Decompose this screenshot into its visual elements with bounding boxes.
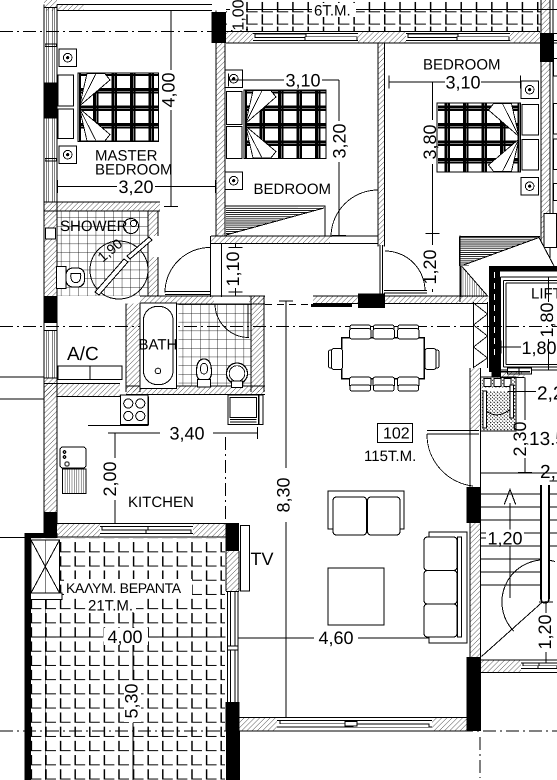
stairs center wall bar [541, 485, 549, 603]
text 5,30 rotated on white [122, 681, 142, 722]
dimension 1,20 bedroom3 door vertical [432, 234, 434, 293]
landing top wall band below lift [500, 372, 530, 378]
bath room floor tiles [179, 304, 252, 386]
veranda floor tiles [31, 538, 225, 780]
svg-text:2,30: 2,30 [510, 421, 530, 456]
headboard bedroom3 [522, 105, 539, 171]
dining chairs bottom row [350, 377, 420, 391]
svg-text:1,20: 1,20 [535, 614, 555, 649]
dimension 5,30 veranda vertical [132, 598, 134, 780]
dining table [342, 338, 425, 379]
svg-text:4,00: 4,00 [107, 627, 142, 647]
stairs treads left flight [481, 494, 541, 585]
wall pier black below lift [492, 360, 502, 378]
shower enclosure circle [90, 241, 148, 299]
wardrobe bedroom3 [459, 236, 461, 238]
window bedroom2 top [253, 34, 358, 41]
dimension 1,20 stairs tick [481, 537, 493, 539]
svg-text:8,30: 8,30 [274, 477, 294, 512]
svg-text:102: 102 [383, 426, 410, 443]
window living south [277, 721, 432, 728]
rotated dim texts [100, 72, 557, 512]
svg-text:LIFT: LIFT [531, 286, 557, 303]
dimension 1,20 winder vertical [539, 601, 553, 663]
svg-text:2,2: 2,2 [537, 384, 557, 405]
door bedroom3 leaf and arc [380, 245, 427, 295]
lift shaft box [501, 277, 557, 370]
dining chairs top row [350, 325, 420, 339]
column black balcony left [212, 12, 227, 43]
wall: corridor south / bath top band [140, 296, 488, 304]
centerline vertical stub bottom right [479, 737, 481, 778]
dining chair left [329, 349, 343, 370]
bed master [78, 73, 159, 142]
kitchen sink unit [60, 447, 86, 468]
bed bedroom3 [437, 103, 521, 172]
sofa three seat [424, 532, 467, 643]
wall: exterior left band outline [44, 5, 57, 538]
wall: corridor north band [211, 236, 378, 244]
wall: kitchen top band [44, 384, 120, 397]
dimension 3,10 bedroom2 [228, 74, 339, 87]
window master W1 [44, 8, 57, 84]
window kitchen/veranda [100, 527, 193, 534]
wall: lift black walls [489, 266, 557, 372]
wall pier black below SW to edge [226, 731, 240, 780]
socket master bottom [59, 146, 77, 164]
dimension 1,80 lift vertical [548, 277, 550, 370]
socket bedroom3 top [521, 81, 539, 99]
dining chair right [425, 349, 439, 370]
svg-text:21Τ.Μ.: 21Τ.Μ. [88, 598, 133, 615]
door bath arc [215, 304, 251, 338]
wardrobe bedroom2 [225, 206, 325, 236]
neighbour socket sliver top [554, 59, 557, 77]
wall: bath bottom band [126, 386, 265, 395]
wall: veranda top black link [25, 533, 58, 538]
text veranda label [64, 579, 192, 615]
slab edge line veranda top [0, 537, 25, 539]
dimension 4,00 veranda [26, 631, 226, 644]
socket bedroom3 bottom [521, 178, 539, 196]
kitchen hob [121, 395, 149, 425]
svg-text:5,30: 5,30 [122, 683, 142, 718]
dimension 3,80 bedroom3 vertical [426, 82, 440, 234]
svg-text:A/C: A/C [67, 344, 99, 365]
socket master top [59, 49, 77, 67]
toilet shower room [57, 267, 85, 289]
wall: shower top band [44, 202, 160, 211]
wall: bedroom2/bedroom3 party wall [378, 43, 385, 247]
centerline top axis [0, 31, 212, 33]
dimension 4,60 living [238, 637, 429, 639]
svg-text:3,20: 3,20 [118, 177, 153, 197]
svg-text:2,00: 2,00 [100, 461, 120, 496]
neighbour party wall line [552, 0, 554, 213]
dimension 3,20 master horizontal [57, 180, 216, 193]
wall: insulated zigzag band lift lobby [474, 302, 488, 368]
svg-text:1,80: 1,80 [537, 302, 557, 337]
svg-text:1,80: 1,80 [521, 338, 556, 358]
svg-text:1,20: 1,20 [420, 249, 440, 284]
wall pier black left 2 [44, 296, 57, 323]
shower head spiral [124, 219, 139, 234]
kitchen peninsula cabinet [228, 395, 263, 425]
centerline bottom axis [0, 730, 557, 732]
svg-text:2,: 2, [540, 462, 556, 483]
neighbour headboard sliver 2 [554, 139, 557, 170]
shower door diagonal panels [95, 237, 152, 295]
corridor east end line [459, 236, 461, 303]
sliding door bar dining [311, 304, 352, 307]
svg-text:1,20: 1,20 [487, 529, 522, 549]
wall pier black top right [540, 33, 554, 62]
window master W2 [44, 118, 57, 202]
stairs up arrow [504, 490, 515, 599]
stairs winder lines [482, 560, 555, 657]
wall pier black left 1 [44, 83, 57, 118]
svg-text:13.5: 13.5 [529, 429, 557, 450]
dimension 1,00 balcony vertical [234, 0, 248, 32]
socket bedroom2 bottom [225, 172, 243, 190]
window A/C left wall [44, 331, 57, 379]
shower room floor tiles [57, 211, 148, 296]
text 1,20 winder rotated on white [535, 613, 555, 652]
wall: bedrooms top band [226, 32, 557, 44]
window stairs south [521, 663, 557, 669]
bed bedroom2 [244, 90, 326, 159]
balcony floor tiles top [226, 0, 557, 32]
dimension 4,00 master vertical [164, 10, 178, 207]
text 4,00 veranda on white [104, 627, 148, 647]
wall: veranda left black [25, 533, 32, 780]
wall pier black TV top [226, 524, 240, 552]
vent window shower left wall [46, 228, 56, 239]
kitchen radiator [63, 469, 87, 494]
wall: bath right band [251, 296, 264, 392]
wall: exterior right band [541, 0, 550, 266]
column black corridor/dining [358, 294, 385, 309]
door lobby arc [165, 248, 210, 295]
neighbour headboard sliver 1 [554, 104, 557, 135]
wall pier black living SE [467, 657, 482, 731]
entry porch dotted [481, 377, 517, 431]
svg-text:1,10: 1,10 [223, 251, 243, 286]
dimension 2,2 landing top [508, 378, 536, 392]
edge dim texts right [529, 384, 557, 484]
wall: master top [44, 0, 212, 11]
svg-text:BEDROOM: BEDROOM [423, 57, 501, 74]
wall pier black living SW [226, 702, 240, 731]
text 102 box [378, 424, 413, 443]
svg-text:BATH: BATH [139, 337, 178, 354]
dimension 2,30 landing vertical [518, 392, 532, 474]
stairs treads right flight [550, 481, 557, 546]
socket bedroom2 top [225, 70, 243, 88]
wall pier black left 3 [44, 512, 57, 537]
dimension 1,10 corridor vertical [229, 244, 243, 296]
svg-text:ΚΑΛΥΜ. ΒΕΡΑΝΤΑ: ΚΑΛΥΜ. ΒΕΡΑΝΤΑ [66, 580, 182, 596]
headboard master [58, 75, 74, 139]
svg-text:4,00: 4,00 [159, 72, 179, 107]
sofa loveseat [328, 491, 404, 535]
dimension 3,20 bedroom2 vertical [332, 80, 346, 236]
duct box in right wall [544, 214, 557, 248]
bathtub [140, 303, 177, 389]
kitchen counter line [88, 397, 149, 426]
svg-text:3,10: 3,10 [445, 73, 480, 93]
svg-text:TV: TV [251, 549, 274, 569]
void hatch lower triangle [461, 266, 488, 297]
dimension 8,30 living vertical [279, 301, 293, 718]
slab edge line A/C balcony upper [0, 376, 44, 378]
wall hatch left shower section [44, 202, 57, 228]
wall hatch TV section [226, 551, 239, 591]
wall: living bottom band [239, 718, 467, 732]
window living/veranda west [226, 592, 239, 703]
centerline middle axis [0, 326, 557, 328]
svg-text:1,00: 1,00 [231, 0, 248, 31]
dimension 2,00 kitchen vertical [108, 433, 122, 524]
svg-text:BEDROOM: BEDROOM [95, 162, 173, 179]
door entry leaf and arc [427, 431, 479, 487]
coffee table [328, 568, 384, 625]
dashed opening line kitchen/corridor [265, 304, 313, 306]
basin bath [227, 363, 248, 388]
neighbour socket sliver bottom [554, 184, 557, 201]
text 6T.M. balcony [312, 3, 356, 20]
wall: lobby stub wall [211, 236, 222, 297]
wall: stairs south band [481, 660, 557, 673]
svg-text:3,40: 3,40 [169, 424, 204, 444]
svg-text:6Τ.Μ.: 6Τ.Μ. [314, 3, 351, 20]
door bedroom2 arc [331, 190, 378, 237]
wall hatch left shower section 2 [44, 239, 57, 296]
toilet bath [197, 359, 212, 387]
svg-text:4,60: 4,60 [318, 628, 353, 648]
window bedroom3 top [406, 34, 557, 41]
svg-text:3,80: 3,80 [420, 124, 440, 159]
svg-text:BEDROOM: BEDROOM [254, 181, 332, 198]
void hatch upper (stair well) [460, 237, 555, 267]
wall pier black entry south [467, 487, 482, 523]
centerline vertical axis kitchen/TV [225, 437, 227, 523]
dim texts [118, 71, 556, 649]
dimension 3,40 kitchen [115, 427, 258, 439]
planter box with X [31, 540, 63, 600]
headboard bedroom2 [227, 92, 243, 159]
dimension 1,80 lift horizontal [501, 341, 522, 354]
wall: kitchen bottom band [44, 524, 239, 538]
lift door [508, 368, 532, 374]
wall: shower right band [148, 211, 158, 296]
svg-text:115Τ.Μ.: 115Τ.Μ. [364, 448, 416, 465]
svg-text:SHOWER: SHOWER [60, 218, 128, 235]
wall hatch left kitchen section [44, 378, 57, 512]
svg-text:3,20: 3,20 [330, 123, 350, 158]
dimension 3,10 bedroom3 [389, 76, 522, 89]
wall: bath left band [126, 304, 140, 393]
text 1,00 balcony [230, 0, 248, 31]
svg-text:3,10: 3,10 [285, 71, 320, 91]
projection line veranda [44, 600, 46, 780]
slab edge line A/C balcony lower [0, 398, 44, 400]
TV cabinet [241, 526, 250, 592]
svg-text:KITCHEN: KITCHEN [128, 494, 194, 511]
wall: master/bedroom2 party wall [216, 11, 225, 237]
A/C shelves [58, 366, 122, 380]
stairs landing line [481, 472, 557, 474]
wall: living east band [470, 368, 481, 731]
